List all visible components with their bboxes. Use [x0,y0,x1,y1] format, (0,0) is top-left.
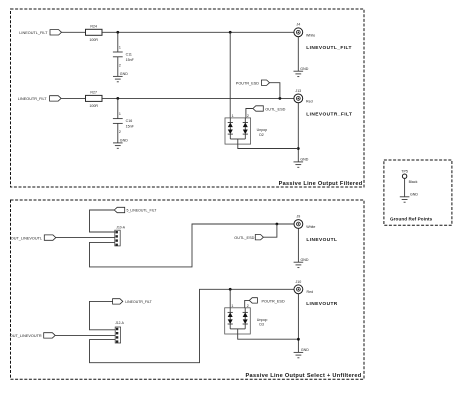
svg-text:TP5: TP5 [401,169,408,173]
svg-text:LINEVOUTL: LINEVOUTL [306,237,337,243]
svg-text:5_LINEOUTL_FILT: 5_LINEOUTL_FILT [127,209,158,213]
svg-text:15nF: 15nF [126,58,135,62]
svg-text:GND: GND [301,258,309,262]
svg-text:OUT_LINEVOUTR: OUT_LINEVOUTR [10,334,42,338]
svg-text:Unpop: Unpop [257,128,268,132]
svg-text:GND: GND [300,158,308,162]
svg-text:100R: 100R [89,104,98,108]
svg-text:D3: D3 [259,323,264,327]
svg-text:Ground Ref Points: Ground Ref Points [390,217,433,222]
svg-text:D2: D2 [259,133,264,137]
svg-text:Red: Red [306,99,313,103]
svg-text:15nF: 15nF [126,124,135,128]
svg-text:C16: C16 [126,119,133,123]
svg-text:GND: GND [120,139,128,143]
svg-text:GND: GND [300,67,308,71]
svg-text:White: White [306,225,315,229]
svg-text:2: 2 [119,130,121,134]
svg-text:2: 2 [119,64,121,68]
svg-text:Black: Black [409,180,418,184]
svg-text:J9: J9 [297,215,301,219]
svg-text:OUTL_ESD: OUTL_ESD [234,236,254,240]
svg-text:1: 1 [231,304,233,308]
svg-text:J13: J13 [295,89,301,93]
svg-text:POUTR_ESD: POUTR_ESD [236,81,259,85]
svg-text:J4: J4 [296,22,300,26]
svg-text:J10-A: J10-A [116,225,125,229]
svg-text:Passive Line Output Select + U: Passive Line Output Select + Unfiltered [246,373,362,379]
svg-text:2: 2 [247,304,249,308]
svg-text:Unpop: Unpop [257,318,268,322]
svg-text:LINEOUTR_FILT: LINEOUTR_FILT [125,300,152,304]
svg-text:GND: GND [410,192,418,196]
svg-text:C11: C11 [126,53,132,57]
svg-text:OUT_LINEVOUTL: OUT_LINEVOUTL [11,236,42,240]
svg-text:LINEOUTL_FILT: LINEOUTL_FILT [19,31,48,35]
svg-text:LINEOUTR_FILT: LINEOUTR_FILT [18,97,48,101]
svg-text:POUTR_ESD: POUTR_ESD [262,299,285,303]
svg-text:2: 2 [247,114,249,118]
svg-text:LINEVOUTR_FILT: LINEVOUTR_FILT [306,112,352,118]
svg-text:Red: Red [307,290,314,294]
svg-text:OUTL_ESD: OUTL_ESD [265,107,285,111]
svg-text:GND: GND [120,72,128,76]
svg-text:1: 1 [232,114,234,118]
svg-text:LINEVOUTR: LINEVOUTR [306,301,338,307]
svg-text:J12-A: J12-A [115,321,124,325]
svg-text:R27: R27 [90,91,97,95]
svg-text:R24: R24 [90,25,97,29]
svg-text:LINEVOUTL_FILT: LINEVOUTL_FILT [306,45,352,51]
svg-text:J10: J10 [296,280,302,284]
svg-text:Passive Line Output Filtered: Passive Line Output Filtered [279,181,363,187]
svg-text:1: 1 [119,112,121,116]
svg-text:GND: GND [301,348,309,352]
svg-text:1: 1 [119,45,121,49]
svg-text:White: White [306,33,315,37]
svg-text:100R: 100R [89,38,98,42]
